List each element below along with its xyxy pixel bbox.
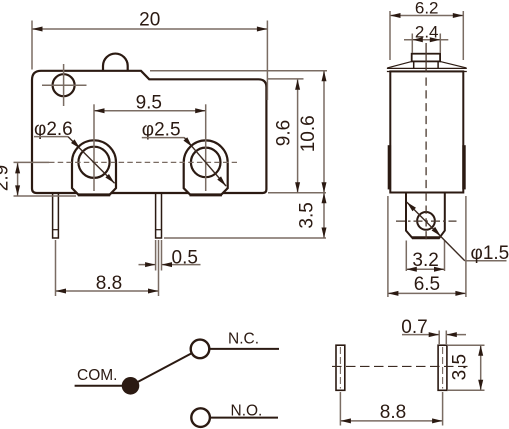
svg-text:9.5: 9.5	[136, 93, 162, 114]
svg-text:6.5: 6.5	[414, 274, 440, 295]
side body	[390, 71, 463, 192]
button lower section sides	[413, 61, 415, 68]
left pin	[53, 193, 59, 238]
top cap band	[387, 67, 467, 69]
svg-text:2.4: 2.4	[415, 22, 439, 41]
mounting hole crosshair	[42, 84, 87, 86]
node COM contact dot	[122, 377, 140, 395]
dimension 9.6 / 10.6 / 3.5 extension lines	[150, 70, 327, 72]
vertical centerline right housing	[205, 104, 207, 191]
svg-text:3.5: 3.5	[297, 202, 318, 228]
svg-text:9.6: 9.6	[274, 120, 295, 146]
right pin dashed centerline	[442, 347, 444, 389]
dark side bar right	[462, 145, 465, 189]
right pin section	[438, 345, 447, 390]
wire switch arm	[131, 353, 192, 386]
horizontal dashed centerline tab hole	[396, 220, 457, 222]
button tip	[412, 54, 440, 62]
dimension 3.5 (pins)	[448, 344, 485, 346]
tab hole phi1.5	[417, 212, 435, 230]
plunger button	[103, 54, 128, 71]
right housing thick base	[190, 193, 222, 196]
dimension 2.4	[411, 34, 413, 54]
right terminal hole phi2.5	[191, 148, 221, 178]
horizontal dashed centerline	[332, 365, 468, 367]
svg-text:8.8: 8.8	[380, 402, 406, 423]
svg-text:COM.: COM.	[77, 367, 117, 384]
dark side bar left	[388, 145, 391, 189]
node N.O. contact	[191, 408, 210, 427]
svg-text:0.5: 0.5	[172, 248, 198, 269]
svg-text:3.2: 3.2	[412, 250, 438, 271]
dimension 8.8 (front)	[55, 240, 57, 296]
left terminal hole phi2.6	[78, 147, 109, 178]
dimension 10.6	[323, 71, 325, 238]
mounting hole	[53, 74, 75, 96]
dimension 0.5	[155, 240, 157, 271]
label phi1.5 with leader	[407, 202, 465, 261]
left pin section	[336, 345, 345, 390]
collar slopes	[387, 61, 412, 68]
terminal tab	[406, 193, 445, 238]
svg-text:2.9: 2.9	[0, 165, 13, 191]
dimension 20	[31, 21, 33, 70]
wire COM	[75, 385, 122, 387]
horizontal dashed centerline through terminal holes	[14, 161, 50, 163]
svg-text:φ1.5: φ1.5	[471, 243, 509, 264]
right terminal housing	[184, 140, 228, 194]
dimension 6.2	[389, 11, 391, 60]
dimension 9.5	[94, 110, 206, 112]
right pin	[156, 193, 162, 238]
wire N.C.	[209, 348, 279, 350]
left terminal housing	[72, 140, 116, 195]
node N.C. contact	[191, 340, 210, 359]
svg-text:N.O.: N.O.	[231, 402, 263, 419]
left pin dashed centerline	[339, 347, 341, 389]
dimension 3.2	[405, 241, 407, 272]
dimension 6.5	[387, 196, 389, 297]
svg-text:10.6: 10.6	[298, 115, 319, 152]
svg-text:8.8: 8.8	[96, 273, 122, 294]
vertical centerline left housing	[93, 104, 95, 191]
dimension 0.7	[438, 331, 440, 345]
left housing thick base	[78, 193, 110, 196]
dimension 3.5 (front)	[322, 193, 327, 204]
wire N.O.	[210, 417, 278, 419]
dimension 2.9	[14, 195, 77, 197]
dimension 8.8 (pins)	[339, 392, 341, 426]
svg-text:3.5: 3.5	[450, 354, 471, 380]
vertical dashed centerline	[425, 43, 427, 72]
svg-text:20: 20	[139, 10, 160, 31]
switch body outline	[32, 71, 266, 193]
svg-text:N.C.: N.C.	[228, 331, 259, 348]
svg-text:6.2: 6.2	[415, 0, 439, 17]
dimension 9.6	[297, 79, 299, 192]
svg-text:0.7: 0.7	[401, 317, 427, 338]
